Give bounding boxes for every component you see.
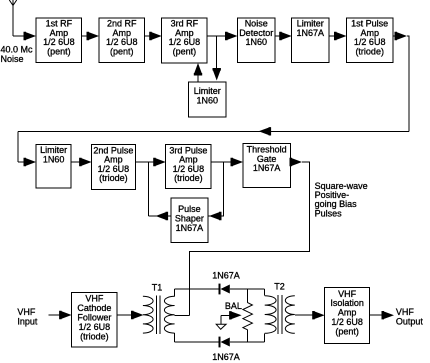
svg-text:VHF: VHF — [85, 293, 104, 303]
transformer T2 core — [278, 295, 282, 334]
wire feedback horizontal — [18, 130, 409, 132]
wire 2nd RF Amp to 3rd RF Amp — [145, 35, 157, 37]
transformer T2 primary winding — [265, 296, 276, 334]
arrow into Threshold Gate — [231, 158, 244, 166]
label T1 — [152, 282, 163, 292]
arrow into Cathode Follower — [59, 311, 72, 319]
svg-text:Pulses: Pulses — [315, 208, 343, 218]
wire antenna to 1st RF Amp — [13, 35, 30, 37]
transformer T1 primary winding — [143, 296, 153, 333]
svg-text:T2: T2 — [274, 282, 285, 292]
wire feedback right vertical — [407, 36, 409, 131]
wire T2 secondary to Isolation Amp — [295, 314, 318, 316]
label 1N67A bottom — [212, 352, 240, 362]
wire T1 secondary top to top rail — [174, 289, 176, 296]
wire Limiter 1N67A to 1st Pulse Amp — [329, 35, 341, 37]
wire resistor bottom stem — [246, 330, 248, 342]
svg-text:(triode): (triode) — [355, 46, 384, 56]
svg-text:(pent): (pent) — [335, 326, 359, 336]
arrow down into Limiter 1N60 — [213, 68, 221, 81]
svg-text:1N67A: 1N67A — [212, 352, 240, 362]
arrow into Isolation Amp — [312, 311, 325, 319]
svg-text:(pent): (pent) — [47, 46, 71, 56]
arrow up into 3rd RF Amp — [194, 63, 202, 76]
arrow into T1 primary — [131, 311, 144, 319]
svg-text:VHF: VHF — [396, 307, 415, 317]
svg-text:Noise: Noise — [1, 54, 24, 64]
wire Noise Detector to Limiter 1N67A — [275, 35, 286, 37]
arrow into 2nd Pulse Amp — [79, 158, 92, 166]
antenna — [9, 0, 16, 36]
wire Pulse Shaper left output — [149, 215, 171, 217]
node label VHF Input — [17, 307, 38, 326]
block 2nd RF Amp — [99, 18, 144, 63]
svg-text:(triode): (triode) — [174, 173, 203, 183]
svg-text:1N60: 1N60 — [196, 95, 218, 105]
block 1st Pulse Amp — [347, 18, 393, 63]
wire Limiter row2 to 2nd Pulse Amp — [71, 161, 85, 163]
arrow into Limiter 1N67A — [279, 32, 292, 40]
arrow into 3rd Pulse Amp — [153, 158, 166, 166]
diode CR1 1N67A top — [219, 284, 230, 295]
arrow BAL wiper into resistor — [229, 311, 242, 319]
wire Isolation Amp output — [370, 314, 388, 316]
wire bias pulses path — [189, 162, 309, 315]
wire bottom rail right — [230, 341, 265, 343]
wire T1 secondary bottom to bottom rail — [174, 333, 176, 342]
wire 1st Pulse Amp output — [393, 35, 398, 37]
arrow into Noise Detector — [225, 32, 238, 40]
wire 3rd RF Amp to Noise Detector — [207, 35, 232, 37]
transformer T1 secondary winding — [164, 296, 174, 333]
svg-text:Pulse: Pulse — [178, 204, 201, 214]
arrow into 2nd RF Amp — [87, 32, 100, 40]
label BAL — [225, 301, 242, 311]
svg-text:Input: Input — [17, 316, 38, 326]
svg-text:1N60: 1N60 — [245, 37, 267, 47]
block 3rd Pulse Amp — [166, 145, 211, 189]
arrow into 1st RF Amp — [24, 32, 37, 40]
wire 3rd Pulse Amp to Threshold Gate — [211, 161, 237, 163]
wire top rail left — [175, 288, 219, 290]
wire 1st RF Amp to 2nd RF Amp — [82, 35, 93, 37]
svg-text:T1: T1 — [152, 282, 163, 292]
wire feedback left vertical — [17, 131, 19, 162]
label 1N67A top — [212, 271, 240, 281]
arrow VHF Output — [382, 311, 395, 319]
svg-text:Follower: Follower — [77, 313, 111, 323]
wire BAL wiper — [221, 314, 232, 316]
block Limiter 1N60 (feedback) — [189, 82, 226, 117]
svg-text:(triode): (triode) — [80, 332, 109, 342]
transformer T1 core — [156, 296, 160, 334]
diode CR2 1N67A bottom — [219, 337, 230, 348]
wire resistor top stem — [246, 289, 248, 302]
wire branch down to Limiter 1N60 feedback — [216, 36, 218, 74]
net label Square-wave Positive-going Bias Pulses — [315, 181, 368, 219]
arrow on 1st Pulse Amp output — [395, 32, 408, 40]
svg-text:BAL: BAL — [225, 301, 242, 311]
wire ground stem — [220, 315, 222, 324]
arrow on Threshold Gate output — [290, 158, 303, 166]
wire top rail right — [230, 288, 265, 290]
wire Limiter 1N60 up to 3rd RF Amp — [197, 70, 199, 82]
arrow on feedback horizontal — [259, 127, 272, 135]
svg-text:Output: Output — [396, 317, 424, 327]
wire T1 center tap to bias line — [175, 314, 190, 316]
ground — [216, 324, 226, 329]
block Noise Detector — [238, 18, 276, 63]
arrow into 1st Pulse Amp — [334, 32, 347, 40]
wire VHF Input to Cathode Follower — [49, 314, 66, 316]
block 2nd Pulse Amp — [92, 145, 136, 190]
label T2 — [274, 282, 285, 292]
wire bottom rail left — [175, 341, 219, 343]
block 3rd RF Amp — [162, 18, 207, 63]
node label 40.0 Mc Noise — [1, 45, 34, 64]
block 1st RF Amp — [36, 18, 82, 63]
svg-text:1N60: 1N60 — [43, 155, 65, 165]
block VHF Isolation Amp — [325, 288, 370, 344]
svg-text:Cathode: Cathode — [77, 303, 111, 313]
svg-text:Shaper: Shaper — [175, 213, 204, 223]
svg-text:1N67A: 1N67A — [212, 271, 240, 281]
arrow into 3rd RF Amp — [149, 32, 162, 40]
wire Threshold Gate output — [290, 161, 296, 163]
wire riser from Pulse Shaper output up to 3rd Pulse Amp input — [148, 162, 150, 216]
block Limiter 1N60 row2 — [36, 145, 71, 189]
block VHF Cathode Follower — [72, 292, 118, 347]
svg-text:1/2 6U8: 1/2 6U8 — [79, 322, 111, 332]
arrow into Limiter 1N60 row2 — [24, 158, 37, 166]
svg-text:(pent): (pent) — [110, 46, 134, 56]
svg-text:(triode): (triode) — [99, 173, 128, 183]
wire Cathode Follower to T1 — [117, 314, 137, 316]
block Pulse Shaper — [171, 198, 208, 243]
block Limiter 1N67A — [292, 18, 329, 63]
arrow from Pulse Shaper pointing left — [156, 212, 169, 220]
resistor R1 balance potentiometer — [243, 302, 253, 329]
wire bottom rail corner up to T2 primary — [264, 333, 266, 342]
block Threshold Gate — [243, 143, 290, 187]
wire feedback into Limiter 1N60 row2 — [18, 161, 30, 163]
svg-text:1N67A: 1N67A — [176, 223, 204, 233]
wire 2nd Pulse Amp to 3rd Pulse Amp — [135, 161, 159, 163]
svg-text:1N67A: 1N67A — [297, 28, 325, 38]
arrow into Pulse Shaper right side — [209, 212, 222, 220]
node label VHF Output — [396, 307, 424, 327]
wire branch down to Pulse Shaper input — [208, 162, 223, 216]
svg-text:(pent): (pent) — [173, 46, 197, 56]
transformer T2 secondary winding — [285, 296, 295, 334]
wire top rail corner down to T2 primary — [264, 289, 266, 296]
svg-text:1N67A: 1N67A — [253, 163, 281, 173]
